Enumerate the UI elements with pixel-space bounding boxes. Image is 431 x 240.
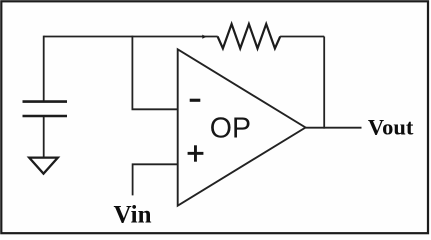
wire inverting input branch <box>132 36 177 110</box>
wire capacitor to ground <box>43 117 45 157</box>
non-inverting input marker + <box>188 145 204 161</box>
svg-text:Vout: Vout <box>368 114 414 139</box>
wire feedback vertical to output node <box>323 37 325 129</box>
junction arrow marker on top wire <box>202 35 206 39</box>
wire non-inverting input branch <box>133 164 178 195</box>
op-amp OP <box>178 49 306 205</box>
svg-text:Vin: Vin <box>114 201 152 228</box>
capacitor <box>23 102 68 116</box>
wire top feedback right segment <box>280 36 324 38</box>
resistor <box>218 24 281 48</box>
ground <box>29 158 58 174</box>
wire capacitor top branch <box>43 36 45 101</box>
wire output <box>306 127 362 129</box>
inverting input marker - <box>190 99 201 102</box>
svg-text:OP: OP <box>210 112 251 144</box>
wire top feedback left segment <box>44 36 218 38</box>
